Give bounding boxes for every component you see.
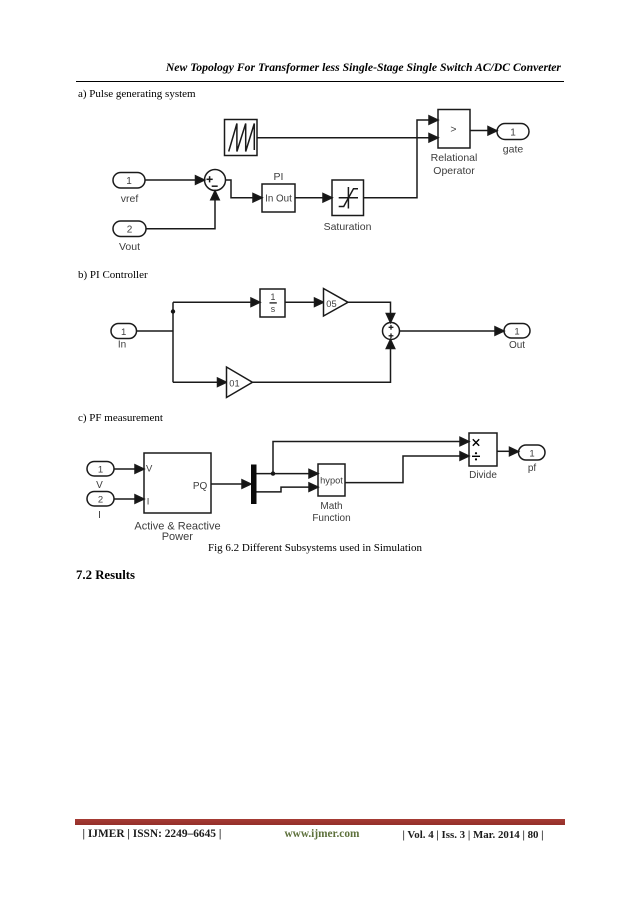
inport oval 1 vref	[113, 173, 145, 189]
svg-text:1: 1	[514, 327, 519, 338]
svg-text:V: V	[96, 480, 103, 491]
wire demux out1 to hypot input1	[257, 469, 319, 477]
svg-text:01: 01	[229, 379, 239, 389]
footer center text	[285, 828, 360, 841]
heading 7.2 Results	[76, 568, 135, 583]
branch junction dot	[171, 309, 175, 313]
svg-text:1: 1	[126, 176, 132, 187]
svg-text:Vout: Vout	[119, 241, 140, 253]
wire In to branch	[137, 330, 174, 332]
wire Vout to sum bottom	[146, 191, 219, 229]
PI subsystem block	[262, 184, 295, 212]
integrator block 1/s	[260, 289, 285, 317]
wire integrator to gain 05	[285, 298, 324, 306]
svg-text:1: 1	[271, 292, 276, 302]
inport oval 2 Vout	[113, 221, 146, 237]
outport oval 1 pf	[519, 445, 546, 460]
wire branch to divide input1	[273, 437, 469, 473]
wire sawtooth to relational operator lower input	[257, 134, 438, 142]
saturation block	[332, 180, 364, 216]
svg-text:I: I	[98, 510, 101, 521]
inport oval 1 In	[111, 324, 137, 339]
svg-text:I: I	[147, 497, 150, 508]
gain block 01	[227, 367, 253, 398]
label Math Function	[312, 501, 350, 524]
wire PQ to demux	[211, 480, 251, 488]
section label c	[78, 412, 163, 425]
wire hypot to divide input2	[345, 452, 469, 483]
svg-text:Operator: Operator	[433, 165, 475, 177]
header running title	[166, 61, 561, 74]
inport oval 1 V	[87, 462, 114, 477]
svg-text:1: 1	[510, 128, 516, 139]
wire gain 05 to sum top	[348, 302, 395, 322]
wire gain 01 to sum bottom	[253, 340, 395, 383]
label Active & Reactive Power	[134, 521, 220, 544]
inport oval 2 I	[87, 492, 114, 507]
svg-text:Out: Out	[509, 340, 525, 351]
divide block	[469, 433, 497, 466]
footer left text	[83, 828, 222, 841]
branch junction dot	[271, 471, 275, 475]
branch vertical wire	[172, 302, 174, 382]
footer bar	[75, 819, 565, 825]
svg-text:>: >	[450, 124, 456, 136]
svg-text:In Out: In Out	[265, 194, 292, 205]
svg-text:s: s	[271, 304, 276, 314]
wire sum to Out	[400, 327, 505, 335]
footer right text	[403, 829, 544, 842]
sum junction (+ +)	[383, 323, 400, 340]
relational operator block	[438, 110, 470, 149]
svg-text:1: 1	[529, 448, 534, 459]
svg-text:2: 2	[127, 225, 133, 236]
svg-text:vref: vref	[121, 193, 139, 205]
wire vref to sum	[145, 176, 205, 184]
outport oval 1 Out	[504, 324, 530, 339]
wire relational operator to gate	[470, 127, 497, 135]
wire sum to PI block	[226, 180, 263, 202]
svg-text:Power: Power	[162, 531, 194, 543]
wire divide to pf	[497, 447, 519, 455]
svg-text:V: V	[146, 464, 153, 475]
wire branch to integrator	[173, 298, 260, 306]
svg-text:Saturation: Saturation	[324, 221, 372, 233]
section label b	[78, 269, 148, 282]
svg-text:1: 1	[121, 327, 126, 338]
section label a	[78, 88, 196, 101]
wire demux out2 to hypot input2	[257, 483, 319, 492]
svg-text:2: 2	[98, 495, 103, 506]
svg-text:hypot: hypot	[320, 475, 343, 485]
svg-text:Math: Math	[320, 501, 342, 512]
svg-text:1: 1	[98, 465, 103, 476]
header rule	[76, 81, 564, 82]
svg-text:Function: Function	[312, 513, 350, 524]
wire PI to saturation	[295, 194, 332, 202]
svg-text:In: In	[118, 340, 126, 351]
repeating sequence (sawtooth) block	[225, 120, 258, 156]
svg-text:pf: pf	[528, 463, 537, 474]
demux bar	[251, 465, 257, 505]
svg-text:05: 05	[326, 299, 336, 309]
wire saturation to relational operator upper input	[364, 116, 439, 198]
label Relational Operator	[431, 152, 478, 177]
gain block 05	[324, 289, 349, 317]
svg-text:Divide: Divide	[469, 470, 497, 481]
active & reactive power block	[144, 453, 211, 513]
svg-text:PI: PI	[274, 171, 284, 183]
wire I to power block	[114, 495, 144, 503]
svg-text:Relational: Relational	[431, 152, 478, 164]
sum junction (+/-)	[205, 170, 226, 191]
figure caption	[0, 542, 634, 555]
math function block hypot	[318, 464, 345, 496]
wire V to power block	[114, 465, 144, 473]
outport oval 1 gate	[497, 124, 529, 140]
svg-text:gate: gate	[503, 144, 524, 156]
svg-text:PQ: PQ	[193, 481, 208, 492]
wire branch to gain 01	[173, 378, 227, 386]
